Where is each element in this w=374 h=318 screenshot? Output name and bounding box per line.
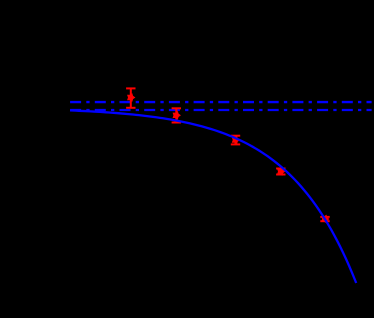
solid exponential decay curve — [70, 110, 356, 283]
data point 5 star marker — [322, 215, 329, 222]
upper dash-dot reference line — [70, 101, 372, 103]
lower dash-dot reference line — [70, 109, 372, 111]
data point 3 star marker — [232, 136, 239, 143]
data point 1 star marker — [128, 94, 135, 101]
data point 4 star marker — [278, 168, 285, 175]
data point 2 star marker — [173, 112, 180, 119]
data point 3 error bar — [231, 136, 240, 145]
data point 2 error bar — [172, 108, 181, 122]
data point 1 error bar — [126, 88, 135, 107]
data point 5 error bar — [320, 217, 329, 221]
data point 4 error bar — [276, 169, 285, 175]
